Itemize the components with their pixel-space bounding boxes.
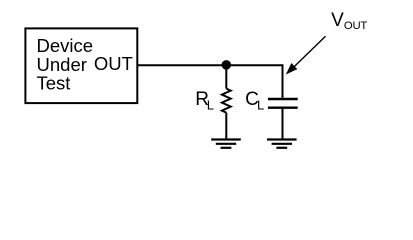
node junction dot: [222, 60, 232, 70]
svg-text:V: V: [331, 10, 344, 31]
VOUT arrow line: [291, 36, 326, 70]
label RL: [195, 89, 214, 113]
svg-text:L: L: [207, 98, 214, 113]
svg-text:Test: Test: [37, 72, 71, 93]
device under test box: [25, 28, 137, 103]
VOUT arrowhead: [287, 64, 297, 74]
label VOUT: [331, 10, 367, 32]
resistor RL zigzag: [222, 89, 231, 113]
wire resistor to ground: [225, 113, 227, 140]
wire corner down to capacitor: [282, 64, 284, 98]
svg-text:OUT: OUT: [344, 20, 368, 32]
label Device Under Test: [37, 35, 94, 93]
label CL: [245, 89, 264, 113]
wire capacitor to ground: [282, 108, 284, 140]
wire OUT to node and capacitor corner: [138, 64, 283, 66]
ground under capacitor: [267, 140, 297, 148]
svg-text:L: L: [257, 98, 264, 113]
wire node to resistor: [225, 65, 227, 89]
ground under resistor: [211, 140, 241, 148]
svg-text:OUT: OUT: [94, 53, 133, 74]
capacitor CL plates: [268, 99, 298, 108]
